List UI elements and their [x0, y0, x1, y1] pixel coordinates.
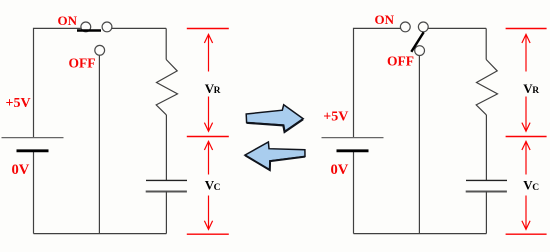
resistor R (zigzag, right circuit): [476, 60, 497, 115]
wire: battery negative down to bottom rail (right circuit): [353, 151, 355, 234]
wire: bottom rail (right circuit): [354, 233, 487, 235]
red cap line: top of VR span (left): [187, 28, 229, 30]
blue block arrow pointing left: [245, 142, 305, 170]
svg-text:ON: ON: [375, 12, 395, 27]
svg-text:C: C: [532, 183, 539, 193]
svg-text:OFF: OFF: [69, 55, 96, 70]
switch blade (thrown to OFF, diagonal): [411, 32, 423, 52]
svg-text:0V: 0V: [12, 162, 30, 178]
svg-text:+5V: +5V: [6, 96, 31, 111]
resistor R (zigzag): [156, 60, 177, 115]
blue block arrow pointing right: [246, 105, 303, 132]
red arrow down VC (right): [522, 196, 530, 230]
wire: right vertical wire down to resistor top: [165, 28, 167, 59]
wire: capacitor bottom to bottom rail (right circuit): [485, 192, 487, 234]
capacitor C bottom plate (right circuit): [466, 191, 507, 193]
red cap line: top of VR span (right): [506, 28, 547, 30]
wire: resistor bottom to capacitor top plate (right circuit): [485, 115, 487, 180]
capacitor C bottom plate: [146, 191, 187, 193]
svg-text:OFF: OFF: [387, 53, 414, 68]
battery negative plate (short thick, right circuit): [337, 149, 369, 152]
red arrow down VR (left): [204, 97, 212, 132]
red arrow up VC (right): [522, 141, 530, 174]
wire: capacitor bottom to bottom rail: [165, 192, 167, 234]
svg-text:R: R: [214, 86, 221, 96]
wire: right circuit top rail, battery positive to switch left contact: [354, 28, 401, 137]
svg-text:+5V: +5V: [323, 109, 348, 124]
switch contact circle (ON left): [81, 22, 91, 32]
switch contact circle (OFF, right circuit): [415, 46, 425, 56]
switch contact circle (ON left, right circuit): [400, 22, 410, 32]
red cap line: middle between VR and VC (right): [506, 136, 547, 138]
red cap line: bottom of VC span (right): [506, 233, 547, 235]
svg-text:ON: ON: [58, 13, 78, 28]
red cap line: middle between VR and VC (left): [187, 136, 229, 138]
red arrow up VR (left): [204, 34, 212, 71]
wire: resistor bottom to capacitor top plate: [165, 115, 167, 180]
red arrow down VR (right): [522, 97, 530, 132]
wire: left top rail, battery positive to switch left contact: [34, 28, 81, 137]
wire: top rail from switch right contact to top-right corner: [428, 27, 486, 29]
red cap line: bottom of VC span (left): [187, 233, 229, 235]
capacitor C top plate (right circuit): [466, 179, 507, 181]
wire: OFF contact down to bottom rail: [98, 55, 100, 234]
red arrow up VR (right): [522, 34, 530, 71]
wire: battery negative down to bottom rail: [33, 151, 35, 234]
battery negative plate (short thick): [17, 149, 49, 152]
switch blade (closed, horizontal): [77, 29, 101, 31]
battery positive plate (long, right circuit): [322, 137, 384, 139]
wire: OFF contact down to bottom rail (right circuit): [418, 55, 420, 234]
svg-text:0V: 0V: [331, 162, 349, 178]
wire: top rail from switch right contact to top-right corner: [112, 27, 166, 29]
capacitor C top plate: [146, 179, 187, 181]
svg-text:C: C: [214, 183, 221, 193]
switch contact circle (ON right): [102, 22, 112, 32]
wire: right vertical wire down to resistor top: [485, 28, 487, 59]
red arrow down VC (left): [204, 196, 212, 230]
red arrow up VC (left): [204, 141, 212, 174]
wire: bottom rail: [34, 233, 167, 235]
svg-text:R: R: [532, 86, 539, 96]
switch contact circle (ON right, right circuit): [418, 22, 428, 32]
switch contact circle (OFF): [95, 45, 105, 55]
battery positive plate (long): [2, 137, 64, 139]
